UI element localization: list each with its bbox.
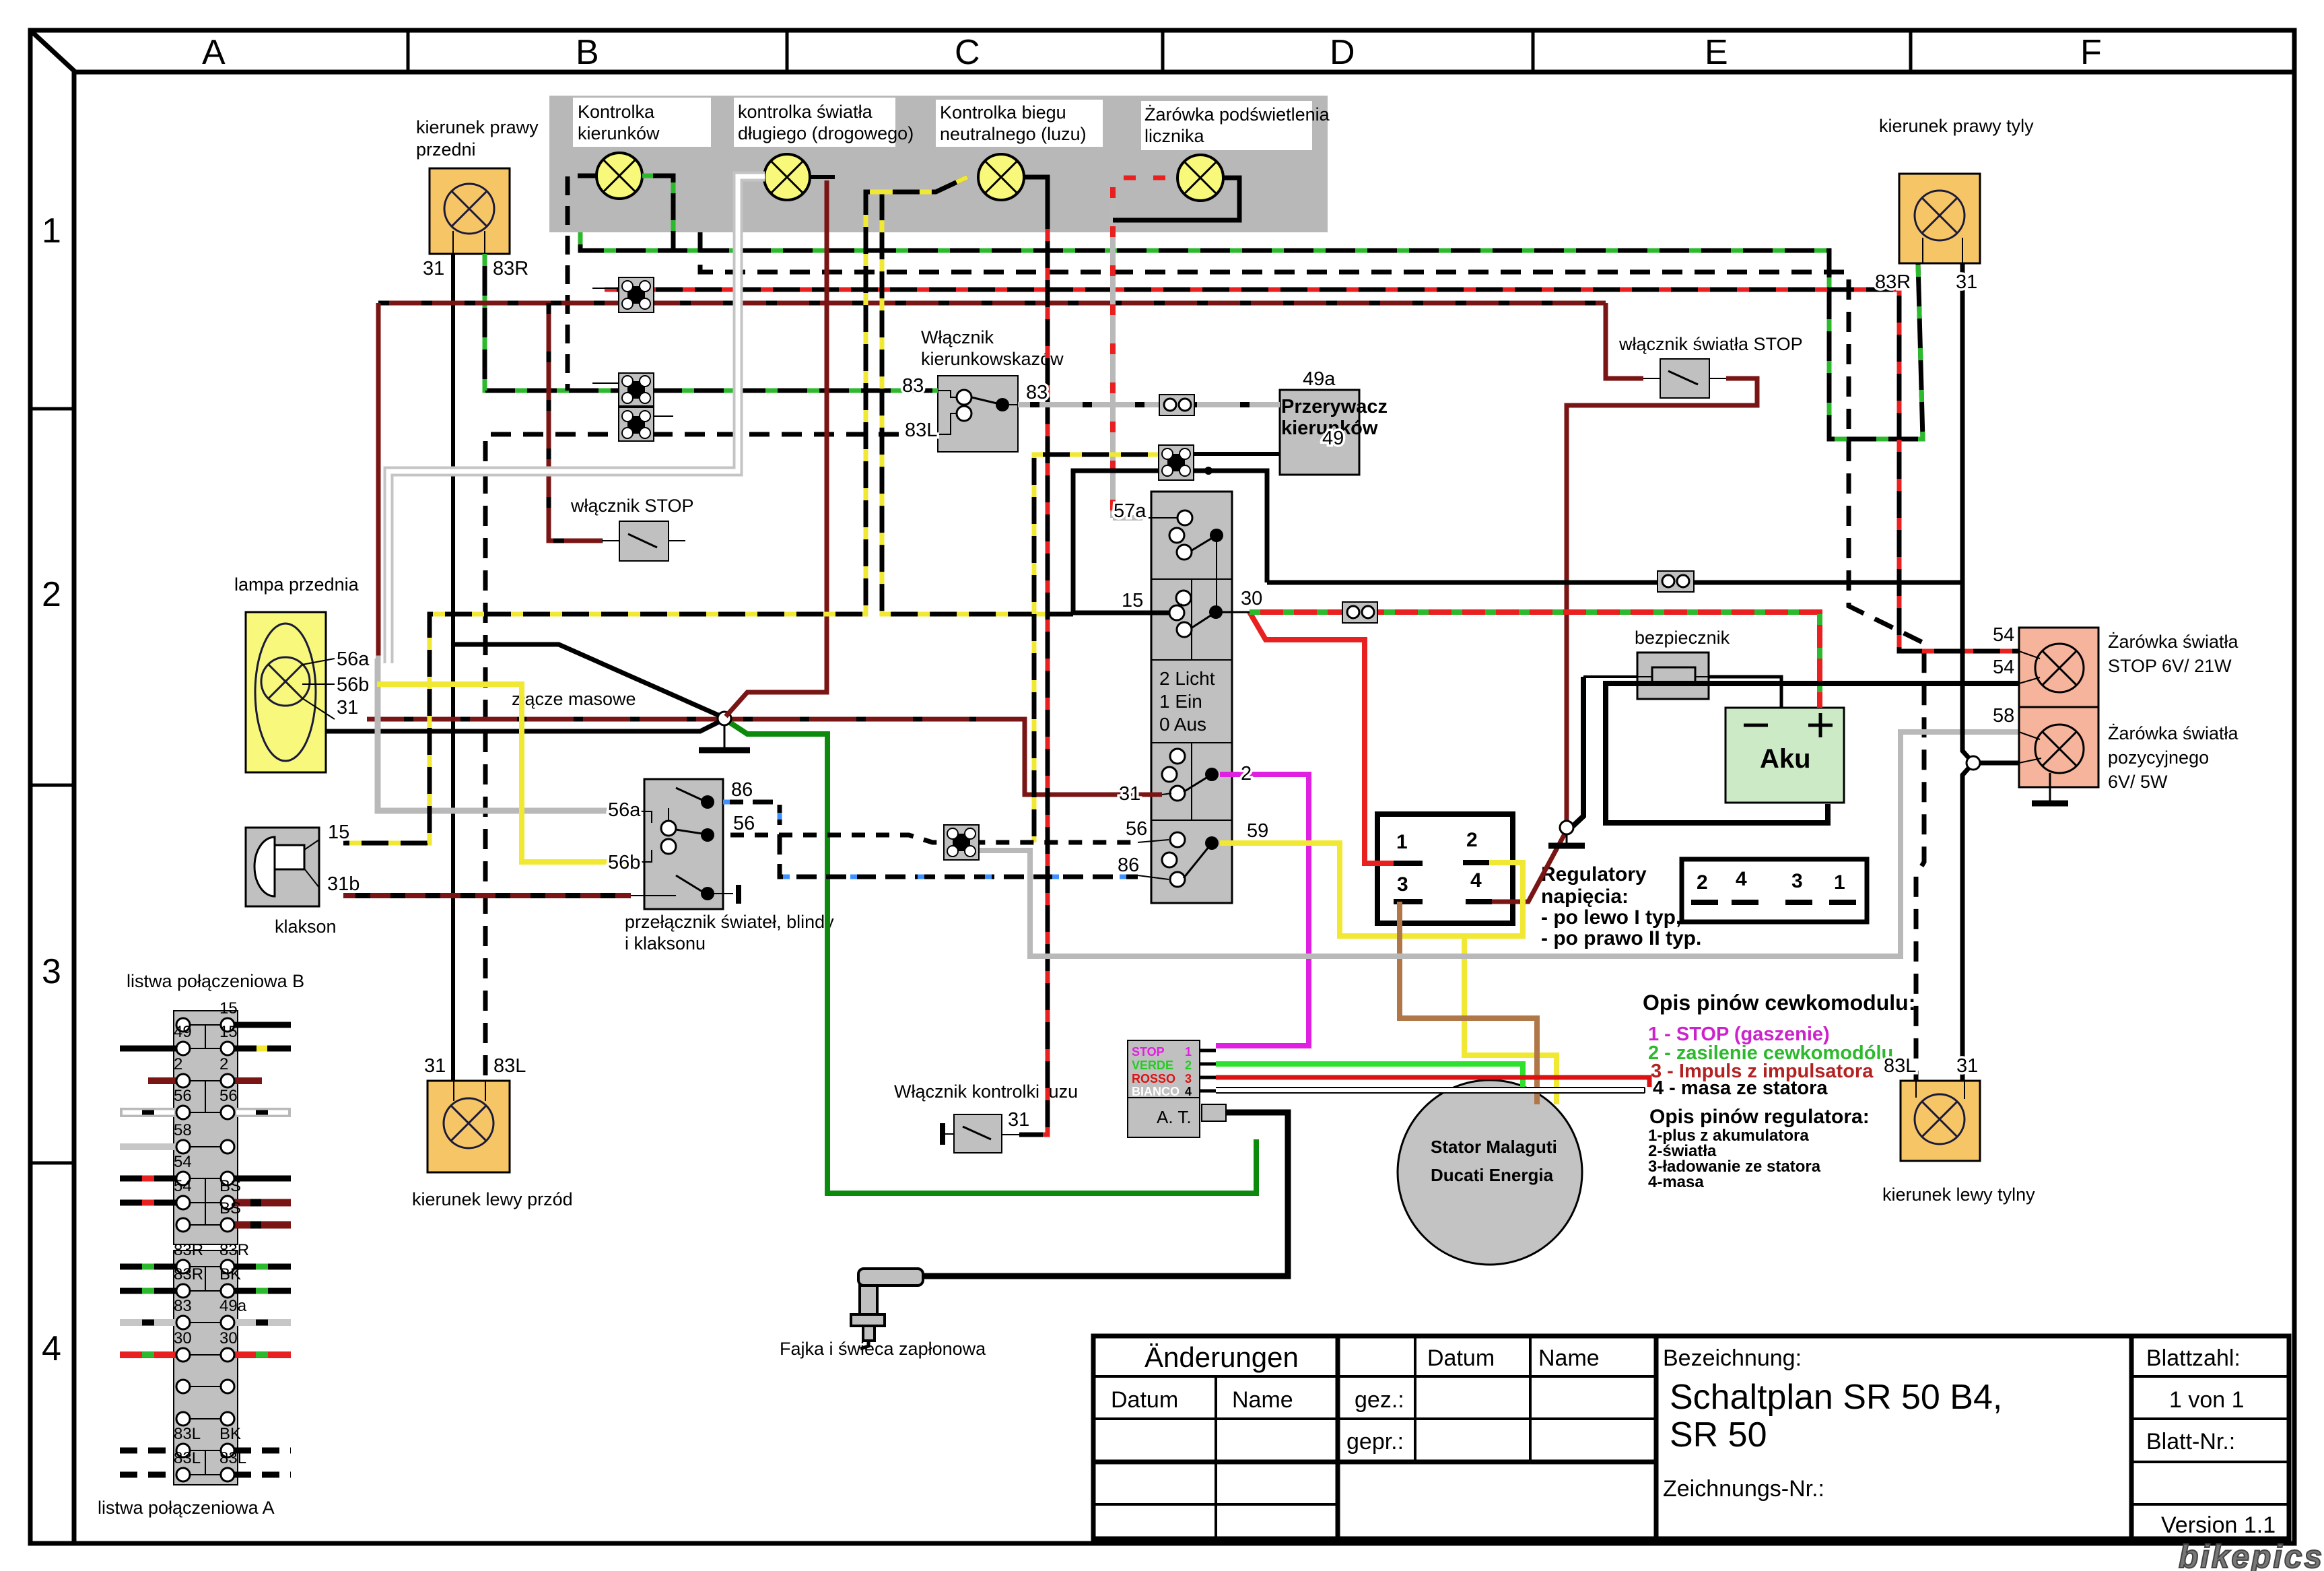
svg-text:Schaltplan SR 50 B4,: Schaltplan SR 50 B4, xyxy=(1670,1378,2002,1417)
strip row 58/None xyxy=(120,1143,177,1150)
svg-text:kierunek lewy tylny: kierunek lewy tylny xyxy=(1882,1184,2035,1205)
svg-text:A: A xyxy=(202,33,226,72)
wire maroon lamp2 drop to masa junction xyxy=(726,180,827,716)
rear right turn lamp box kierunek prawy tyly xyxy=(1899,174,1980,263)
svg-text:Blattzahl:: Blattzahl: xyxy=(2146,1345,2241,1371)
klakson horn box xyxy=(246,828,319,906)
svg-text:49: 49 xyxy=(1322,428,1344,449)
przerywacz kierunkow flasher relay box xyxy=(1280,390,1359,475)
svg-text:kierunek prawy tyly: kierunek prawy tyly xyxy=(1879,116,2034,136)
svg-text:Version 1.1: Version 1.1 xyxy=(2161,1512,2276,1538)
wire yellow 59 to regulator pin2 xyxy=(1220,843,1523,936)
strip row 49/15 xyxy=(120,1046,177,1052)
svg-text:54: 54 xyxy=(1993,624,2014,646)
wire black riser to main bus xyxy=(1194,471,1267,582)
wire red dashed lamp4 feed xyxy=(1124,176,1177,180)
svg-text:przełącznik świateł, blindy: przełącznik świateł, blindy xyxy=(625,912,834,932)
svg-text:Włącznik kontrolki luzu: Włącznik kontrolki luzu xyxy=(894,1081,1078,1102)
svg-text:1: 1 xyxy=(42,211,61,250)
connector on 30 bus xyxy=(1342,602,1377,623)
wire red-black bus to stop lamp 54 xyxy=(605,290,2019,651)
svg-text:Zeichnungs-Nr.:: Zeichnungs-Nr.: xyxy=(1663,1476,1824,1502)
svg-text:31: 31 xyxy=(1956,271,1977,293)
svg-text:Włącznik: Włącznik xyxy=(921,327,994,347)
svg-text:BK: BK xyxy=(219,1425,241,1443)
label box Kontrolka kierunkow xyxy=(573,98,711,147)
label box kontrolka swiatla dlugiego xyxy=(734,98,895,147)
title block table xyxy=(1093,1336,2289,1539)
wire maroon riser at 562 xyxy=(376,303,381,719)
svg-text:BK: BK xyxy=(219,1265,241,1283)
svg-text:3: 3 xyxy=(42,952,61,991)
svg-text:54: 54 xyxy=(174,1177,192,1195)
svg-text:Datum: Datum xyxy=(1111,1387,1178,1413)
svg-text:56a: 56a xyxy=(337,648,370,670)
wire maroon bus 15 feed xyxy=(378,301,1606,306)
svg-text:86: 86 xyxy=(731,779,753,801)
svg-text:F: F xyxy=(2080,33,2102,72)
wire gray 58 position lamp feed xyxy=(980,732,2019,956)
svg-text:15: 15 xyxy=(328,822,349,843)
svg-text:pozycyjnego: pozycyjnego xyxy=(2108,747,2209,768)
svg-text:49: 49 xyxy=(174,1023,192,1041)
svg-text:4: 4 xyxy=(1736,868,1747,890)
wire brown regulator pin3 to stator xyxy=(1400,902,1537,1104)
svg-text:2: 2 xyxy=(219,1055,228,1073)
svg-text:Kontrolka: Kontrolka xyxy=(578,102,655,122)
wire green verde A.T. to stator xyxy=(1216,1064,1523,1087)
svg-text:4 - masa ze statora: 4 - masa ze statora xyxy=(1653,1077,1828,1099)
label box Zarowka podswietlenia licznika xyxy=(1141,101,1312,150)
svg-text:31: 31 xyxy=(424,1055,446,1077)
svg-text:listwa połączeniowa B: listwa połączeniowa B xyxy=(127,971,304,991)
svg-text:BIANCO: BIANCO xyxy=(1132,1085,1180,1098)
svg-text:kontrolka światła: kontrolka światła xyxy=(738,102,873,122)
strip row None/BS xyxy=(234,1222,291,1229)
svg-text:83L: 83L xyxy=(174,1425,201,1443)
svg-text:gez.:: gez.: xyxy=(1355,1387,1404,1413)
strip row 54/BS xyxy=(120,1200,177,1206)
4-pin connector C2 on 83 wire xyxy=(592,373,654,406)
svg-text:Regulatory: Regulatory xyxy=(1541,863,1647,885)
wire red rosso A.T. to stator xyxy=(1216,1077,1649,1087)
svg-text:58: 58 xyxy=(174,1121,192,1139)
svg-text:Żarówka światła: Żarówka światła xyxy=(2108,631,2239,652)
svg-text:Ducati Energia: Ducati Energia xyxy=(1431,1165,1554,1185)
wire lamp2 right stub xyxy=(810,175,835,179)
svg-text:57a: 57a xyxy=(1114,500,1147,522)
strip row 83R/BK xyxy=(120,1288,177,1294)
svg-text:1: 1 xyxy=(1396,831,1408,853)
wire 56 dashed bus switch to ignition xyxy=(730,835,1138,842)
front right turn lamp box kierunek prawy przedni xyxy=(430,168,510,254)
svg-text:klakson: klakson xyxy=(275,916,337,937)
svg-text:4: 4 xyxy=(1470,869,1482,892)
svg-text:długiego (drogowego): długiego (drogowego) xyxy=(738,123,914,143)
svg-text:kierunków: kierunków xyxy=(578,123,660,143)
svg-text:2 Licht: 2 Licht xyxy=(1159,668,1215,689)
section 15 30 contacts xyxy=(1176,591,1191,605)
svg-text:83: 83 xyxy=(174,1297,192,1315)
label overlays with white halo xyxy=(327,258,2014,1131)
svg-text:BS: BS xyxy=(219,1177,241,1195)
wire green masa to A.T. xyxy=(726,720,1256,1193)
svg-text:3: 3 xyxy=(1397,873,1408,896)
A.T. ignition coil module box xyxy=(1128,1040,1226,1137)
svg-text:włącznik światła STOP: włącznik światła STOP xyxy=(1618,334,1803,354)
svg-text:włącznik STOP: włącznik STOP xyxy=(570,496,694,516)
wire yellow branch to stator xyxy=(1464,936,1557,1104)
svg-text:lampa przednia: lampa przednia xyxy=(234,574,360,595)
svg-text:54: 54 xyxy=(1993,657,2014,678)
wire black 49 lower link to 15 xyxy=(1073,471,1169,613)
svg-text:Przerywacz: Przerywacz xyxy=(1281,396,1388,417)
svg-text:BS: BS xyxy=(219,1199,241,1217)
svg-text:C: C xyxy=(955,33,980,72)
ignition switch block 2 Licht 1 Ein 0 Aus xyxy=(1140,492,1232,903)
wire main black bus to rear lamps xyxy=(1267,580,1961,585)
svg-text:83R: 83R xyxy=(493,258,528,279)
wire red 30 to regulator pin1 xyxy=(1250,612,1394,863)
wire 49 black from flasher xyxy=(1192,452,1280,456)
strip row 30/30 xyxy=(120,1351,177,1358)
svg-text:31: 31 xyxy=(423,258,444,279)
svg-text:83L: 83L xyxy=(219,1449,246,1467)
top instrument gray panel xyxy=(549,96,1328,232)
svg-text:31: 31 xyxy=(1119,783,1140,805)
svg-text:83L: 83L xyxy=(1884,1055,1916,1077)
svg-text:licznika: licznika xyxy=(1144,126,1205,146)
wire bus 83R green-black to rear right lamp xyxy=(580,232,1923,439)
strip row None/15 xyxy=(234,1022,291,1028)
wire black A.T. to spark plug xyxy=(923,1112,1288,1276)
svg-text:i klaksonu: i klaksonu xyxy=(625,933,706,954)
svg-text:listwa połączeniowa A: listwa połączeniowa A xyxy=(98,1498,275,1518)
svg-text:4: 4 xyxy=(1185,1085,1192,1098)
svg-text:83R: 83R xyxy=(219,1241,249,1259)
wire magenta 2 to A.T. pin1 xyxy=(1216,774,1309,1046)
svg-text:83L: 83L xyxy=(905,420,937,441)
svg-text:56b: 56b xyxy=(337,674,369,696)
connector on 49a wire xyxy=(1159,395,1194,415)
svg-text:6V/ 5W: 6V/ 5W xyxy=(2108,772,2168,792)
column letters A-F xyxy=(202,33,2102,72)
svg-text:86: 86 xyxy=(1118,855,1139,876)
section 56 59 86 contacts xyxy=(1170,832,1185,847)
svg-text:SR 50: SR 50 xyxy=(1670,1415,1767,1455)
svg-text:Fajka i świeca zapłonowa: Fajka i świeca zapłonowa xyxy=(780,1339,986,1359)
svg-text:STOP 6V/ 21W: STOP 6V/ 21W xyxy=(2108,656,2232,676)
zarowka swiatla STOP lamp box xyxy=(2019,628,2098,707)
svg-text:Name: Name xyxy=(1538,1345,1600,1371)
svg-text:83R: 83R xyxy=(174,1265,203,1283)
wire maroon regulator pin4 to junction xyxy=(1492,832,1566,902)
svg-text:31: 31 xyxy=(1956,1055,1978,1077)
svg-text:gepr.:: gepr.: xyxy=(1346,1429,1404,1455)
wire fuse left down to masa xyxy=(1583,675,1637,678)
svg-text:0 Aus: 0 Aus xyxy=(1159,714,1206,735)
wire dashed bus to rear-left lamp 83L xyxy=(700,232,1924,1081)
svg-text:30: 30 xyxy=(219,1329,238,1347)
node rear lamp junction xyxy=(1967,756,1980,770)
svg-text:Änderungen: Änderungen xyxy=(1144,1341,1299,1373)
svg-text:3: 3 xyxy=(1791,870,1803,892)
wire yellow-black 15 bus klakson to panel xyxy=(882,177,1073,614)
svg-text:83: 83 xyxy=(902,375,924,397)
svg-text:49a: 49a xyxy=(1303,368,1336,390)
Aku battery box xyxy=(1725,708,1844,803)
svg-text:83L: 83L xyxy=(493,1055,526,1077)
svg-text:- po lewo I typ,: - po lewo I typ, xyxy=(1541,906,1681,929)
svg-text:B: B xyxy=(576,33,599,72)
svg-text:Datum: Datum xyxy=(1427,1345,1495,1371)
wlacznik kontrolki luzu neutral switch xyxy=(943,1114,1019,1153)
row numbers 1-4 xyxy=(42,211,61,1368)
svg-text:2: 2 xyxy=(1466,829,1478,851)
svg-text:2: 2 xyxy=(42,575,61,614)
svg-text:Name: Name xyxy=(1232,1387,1293,1413)
svg-text:neutralnego (luzu): neutralnego (luzu) xyxy=(940,124,1087,144)
ground symbol at zlacze masowe xyxy=(724,725,726,749)
svg-text:83L: 83L xyxy=(174,1449,201,1467)
svg-text:kierunek prawy: kierunek prawy xyxy=(416,117,539,137)
4-pin connector on 56 bus xyxy=(944,825,979,860)
svg-text:56b: 56b xyxy=(608,852,640,873)
svg-text:- po prawo II typ.: - po prawo II typ. xyxy=(1541,927,1701,949)
svg-text:2: 2 xyxy=(1241,763,1252,784)
regulator type II connector box 2 4 3 1 xyxy=(1682,859,1867,922)
svg-text:Bezeichnung:: Bezeichnung: xyxy=(1663,1345,1802,1371)
listwa polaczeniowa B connector strip xyxy=(174,1011,238,1244)
wire lamp1 left dashed drop xyxy=(568,176,596,391)
indicator lamp 3 Kontrolka biegu neutralnego xyxy=(978,154,1024,200)
svg-text:napięcia:: napięcia: xyxy=(1541,885,1629,908)
stator Malaguti Ducati Energia circle xyxy=(1398,1080,1582,1265)
wire 56a gray headlamp to switch xyxy=(376,659,626,811)
svg-text:59: 59 xyxy=(1247,820,1268,842)
listwa polaczeniowa A connector strip xyxy=(174,1250,238,1485)
svg-text:1 Ein: 1 Ein xyxy=(1159,691,1202,712)
przelacznik swiatel blindy i klaksonu switch box xyxy=(631,779,739,909)
wire black headlamp ground xyxy=(326,719,724,731)
strip row 83L/83L xyxy=(120,1472,177,1478)
svg-text:VERDE: VERDE xyxy=(1132,1059,1173,1072)
svg-text:56: 56 xyxy=(219,1087,238,1105)
svg-text:STOP: STOP xyxy=(1132,1045,1165,1059)
svg-text:83R: 83R xyxy=(174,1241,203,1259)
svg-text:Stator Malaguti: Stator Malaguti xyxy=(1431,1137,1557,1157)
wire lamp4 right loop xyxy=(1113,178,1239,220)
wire 83R lamp drop black-green xyxy=(485,254,938,391)
wire red-green 30 bus to battery plus xyxy=(1250,612,1820,708)
svg-text:1: 1 xyxy=(1185,1045,1192,1059)
ground symbol under position lamp xyxy=(2049,773,2051,802)
svg-text:1 von 1: 1 von 1 xyxy=(2169,1387,2245,1413)
node battery masa junction xyxy=(1560,821,1573,834)
indicator lamp 2 kontrolka swiatla dlugiego xyxy=(764,154,810,200)
ground symbol at battery junction xyxy=(1566,834,1568,844)
svg-text:31: 31 xyxy=(337,697,358,718)
svg-text:złącze masowe: złącze masowe xyxy=(512,689,636,709)
strip row 83L/BK xyxy=(120,1448,177,1454)
svg-text:Aku: Aku xyxy=(1760,744,1811,774)
svg-text:kierunek lewy przód: kierunek lewy przód xyxy=(412,1189,573,1209)
svg-text:Żarówka podświetlenia: Żarówka podświetlenia xyxy=(1144,104,1330,125)
lampa przednia headlamp box xyxy=(246,612,335,772)
wire black ground diag to masa junction xyxy=(453,644,724,718)
svg-text:E: E xyxy=(1705,33,1728,72)
svg-text:1: 1 xyxy=(1834,871,1845,894)
wire gray-red 57a drop xyxy=(1110,187,1116,518)
node zlacze masowe junction xyxy=(718,712,731,725)
4-pin connector C1 below panel xyxy=(592,277,654,312)
svg-text:bezpiecznik: bezpiecznik xyxy=(1635,628,1730,648)
svg-text:15: 15 xyxy=(1122,590,1143,611)
wire maroon bus right end to brake switch xyxy=(1606,303,1643,378)
wire 56b yellow headlamp to switch xyxy=(377,684,626,862)
svg-text:30: 30 xyxy=(1241,588,1262,609)
zarowka swiatla pozycyjnego lamp box xyxy=(2019,707,2098,787)
svg-text:kierunkowskazów: kierunkowskazów xyxy=(921,349,1064,369)
strip row 56/56 xyxy=(120,1108,177,1117)
svg-text:56a: 56a xyxy=(608,799,641,821)
wire battery minus to fuse xyxy=(1709,677,1781,708)
svg-text:Żarówka światła: Żarówka światła xyxy=(2108,723,2239,743)
wire 49 yellow-black to down run xyxy=(1034,455,1160,842)
svg-text:A. T.: A. T. xyxy=(1157,1107,1192,1127)
svg-text:bikepics: bikepics xyxy=(2179,1539,2324,1571)
svg-text:3: 3 xyxy=(1185,1072,1192,1085)
svg-text:56: 56 xyxy=(733,813,755,834)
wire maroon from brake switch to battery junction xyxy=(1567,378,1757,823)
wire black 31 rear lamps vertical xyxy=(1962,263,1973,1081)
svg-text:31: 31 xyxy=(1008,1109,1029,1131)
bezpiecznik fuse box xyxy=(1637,653,1709,699)
svg-text:Kontrolka biegu: Kontrolka biegu xyxy=(940,102,1066,123)
wire white bianco A.T. to stator xyxy=(1216,1088,1645,1093)
strip row None/None xyxy=(189,1386,221,1387)
svg-text:2: 2 xyxy=(1185,1059,1192,1072)
indicator lamp 1 Kontrolka kierunkow xyxy=(596,153,642,199)
svg-text:4: 4 xyxy=(42,1329,61,1368)
svg-text:31b: 31b xyxy=(327,873,360,895)
svg-text:49a: 49a xyxy=(219,1297,247,1315)
svg-text:przedni: przedni xyxy=(416,139,476,160)
wire maroon 31 headlamp to ignition xyxy=(367,719,1162,795)
wire junction to position lamp xyxy=(1980,761,2019,766)
svg-text:56: 56 xyxy=(174,1087,192,1105)
svg-text:Opis pinów cewkomodulu:: Opis pinów cewkomodulu: xyxy=(1643,991,1915,1015)
connector on main bus xyxy=(1657,571,1694,592)
svg-text:83R: 83R xyxy=(1875,271,1911,293)
front left turn lamp box kierunek lewy przod xyxy=(428,1081,510,1172)
svg-text:58: 58 xyxy=(1993,705,2014,727)
svg-text:2: 2 xyxy=(174,1055,182,1073)
label box Kontrolka biegu neutralnego xyxy=(936,100,1103,147)
section 57a contacts xyxy=(1177,510,1192,525)
strip row 2/2 xyxy=(148,1077,177,1084)
svg-text:2: 2 xyxy=(1697,871,1708,894)
wire maroon drop to wlacznik STOP xyxy=(549,303,603,541)
svg-text:Opis pinów regulatora:: Opis pinów regulatora: xyxy=(1649,1106,1870,1128)
svg-text:Blatt-Nr.:: Blatt-Nr.: xyxy=(2146,1429,2235,1455)
strip row None/None xyxy=(189,1418,221,1419)
svg-text:4-masa: 4-masa xyxy=(1648,1173,1704,1191)
rear left turn lamp box kierunek lewy tylny xyxy=(1901,1081,1980,1161)
svg-text:ROSSO: ROSSO xyxy=(1132,1072,1175,1085)
wire gray 49a flasher feed xyxy=(1018,402,1280,407)
indicator lamp 4 Zarowka podswietlenia licznika xyxy=(1177,155,1223,201)
svg-text:83: 83 xyxy=(1026,382,1048,403)
wlacznik swiatla STOP brake light switch right xyxy=(1643,359,1726,398)
svg-text:15: 15 xyxy=(219,1023,238,1041)
strip row 54/None xyxy=(120,1176,177,1182)
wire black stop lamp 54 lower to battery circuit xyxy=(1606,683,2019,823)
wire 86 blue-black bus xyxy=(723,802,1138,877)
svg-text:54: 54 xyxy=(174,1153,192,1171)
wlacznik kierunkowskazow turn signal switch box xyxy=(938,376,1018,452)
wlacznik STOP brake switch left xyxy=(603,521,685,561)
svg-text:30: 30 xyxy=(174,1329,192,1347)
wire 31b klakson to light switch xyxy=(343,893,631,898)
wire 83L dashed from switch to front-left lamp xyxy=(485,434,931,1081)
wire lamp1 right riser green-black xyxy=(642,176,673,250)
strip row 83/49a xyxy=(120,1319,177,1326)
wire 31 front-right to front-left lamp xyxy=(451,254,455,1081)
strip row 83R/83R xyxy=(120,1264,177,1270)
svg-text:D: D xyxy=(1330,33,1355,72)
fajka i swieca zaplonowa spark plug xyxy=(851,1269,923,1341)
wire red-black lamp3 to neutral switch xyxy=(1019,177,1048,1135)
svg-text:15: 15 xyxy=(219,999,238,1017)
section 31 2 contacts xyxy=(1170,749,1185,764)
4-pin connector C3 on 83L wire xyxy=(619,407,673,441)
4-pin connector on 49 line xyxy=(1159,445,1194,480)
column divider ticks xyxy=(30,30,1911,1163)
svg-text:56: 56 xyxy=(1126,818,1147,840)
regulator box with pins 1 2 3 4 xyxy=(1377,814,1513,923)
wire white high beam indicator pair xyxy=(388,176,765,663)
